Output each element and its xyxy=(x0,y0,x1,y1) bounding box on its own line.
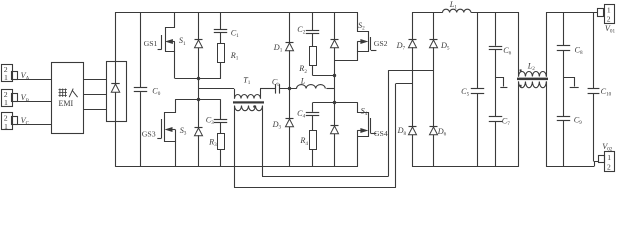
svg-text:2: 2 xyxy=(607,163,611,172)
svg-text:GS3: GS3 xyxy=(142,129,156,138)
svg-text:1: 1 xyxy=(4,98,8,107)
svg-text:2: 2 xyxy=(607,14,611,23)
svg-text:L: L xyxy=(300,76,306,85)
svg-text:GS1: GS1 xyxy=(144,39,158,48)
svg-text:1: 1 xyxy=(607,6,611,15)
svg-text:GS2: GS2 xyxy=(374,39,388,48)
svg-text:EMI: EMI xyxy=(59,99,74,108)
svg-text:1: 1 xyxy=(4,73,8,82)
svg-text:1: 1 xyxy=(607,153,611,162)
svg-text:GS4: GS4 xyxy=(374,129,388,138)
svg-text:1: 1 xyxy=(4,122,8,131)
